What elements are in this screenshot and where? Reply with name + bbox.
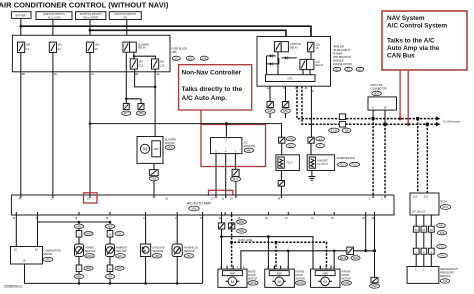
wire battery down [20,18,22,35]
svg-text:E59: E59 [283,110,288,113]
blower relay [123,42,149,52]
svg-text:ON: ON [123,16,127,19]
svg-text:E45: E45 [268,110,273,113]
svg-text:To CAN system: To CAN system [443,121,460,124]
ground [308,177,315,181]
in-vehicle sensor TH3 [172,244,182,257]
A/C relay [300,59,324,69]
connector row 1 2 3 [413,244,447,257]
red highlight A/C control [201,125,266,167]
svg-text:RELAY: RELAY [138,47,146,50]
connector E59 inline [281,102,291,114]
ignition switch ACC [36,12,72,20]
svg-text:F102: F102 [352,164,358,167]
svg-text:M56: M56 [192,208,197,211]
node CAN junction DLC L [383,123,386,126]
svg-text:Non-Nav Controller: Non-Nav Controller [182,70,242,77]
red pointer wire 1 [399,70,401,118]
node data line 2 [275,241,278,244]
diode D1 [270,54,273,57]
connector F3 inline [308,137,325,148]
dashed drop box2 [275,242,277,269]
node ambient feed [109,221,112,224]
wire to magnet clutch [285,113,287,118]
wire relay to lower fuses [134,52,156,59]
svg-text:M96: M96 [239,221,244,224]
wire ignition bus to IPDM [90,30,286,41]
svg-text:M4: M4 [108,275,112,278]
connector stub M55 [136,104,145,116]
connector E1 [333,67,341,71]
connector M92 [74,224,83,228]
svg-text:15A: 15A [138,60,143,63]
svg-text:M57: M57 [187,255,192,258]
svg-text:MOTOR: MOTOR [342,278,351,281]
svg-text:Talks to the A/C: Talks to the A/C [387,38,435,45]
svg-text:METER: METER [43,253,52,256]
connector stub M77 [122,104,131,116]
ignition relay [274,42,301,52]
node CAN junction ECM L [426,123,429,126]
wire feed down [225,124,227,138]
node gnd sunload [144,282,147,285]
svg-text:10A: 10A [57,44,62,47]
node ignition bus [89,29,92,32]
svg-text:M53: M53 [46,259,51,262]
svg-text:M56: M56 [151,178,156,181]
svg-text:C13: C13 [138,65,143,68]
wire to amp strip [280,186,282,195]
pin box 2 [76,231,82,238]
wire motor feed line [222,237,314,269]
svg-text:F45: F45 [440,255,445,258]
CPU U1 [266,75,316,82]
svg-text:Auto Amp via the: Auto Amp via the [387,45,440,52]
magnet clutch MC1 [307,155,334,171]
svg-text:2008/09/12: 2008/09/12 [4,285,22,289]
LAN ground line [241,251,375,269]
combination meter [11,247,62,265]
svg-text:F101: F101 [443,206,449,209]
svg-text:M151: M151 [343,282,350,285]
wire col ON/START 2A to strip [89,53,91,196]
connector M2 [186,56,194,60]
svg-text:SENSOR: SENSOR [153,250,164,253]
node gnd box3 [333,250,336,253]
svg-text:COMPRESSOR: COMPRESSOR [337,157,355,160]
wire gnd drop box3 [333,251,335,269]
connector E45 inline [265,102,275,114]
svg-text:M67: M67 [247,149,252,152]
red pointer wire [200,110,202,125]
wire strip pin39 [365,215,367,251]
svg-text:F23: F23 [439,246,444,249]
node pin39 gnd [364,249,367,252]
svg-text:6B: 6B [22,73,25,76]
svg-text:CLUTCH: CLUTCH [318,163,328,166]
connector F103 [338,162,348,166]
svg-text:M92: M92 [77,225,82,228]
red highlight pin 22 [84,193,98,203]
diode D3 [285,56,288,59]
wire to clutch top [310,86,312,155]
arrow CAN H [436,116,441,120]
svg-text:M150: M150 [297,282,304,285]
svg-text:M8: M8 [439,225,443,228]
connector M1 [172,56,180,60]
svg-text:CPU: CPU [288,78,293,81]
pin box 1 [76,265,82,272]
A/C auto amp connector strip [11,195,394,215]
svg-text:CONTROL: CONTROL [244,145,257,148]
svg-text:Talks directly to the: Talks directly to the [182,86,243,93]
wire strip to mode motor feed [221,215,223,269]
connector 5 inline on gnd [338,247,360,260]
svg-text:M4: M4 [108,225,112,228]
svg-text:ON or START: ON or START [83,16,99,19]
svg-text:M152: M152 [250,282,257,285]
svg-text:M77: M77 [124,112,129,115]
node battery bus [19,25,22,28]
svg-text:M55: M55 [139,112,144,115]
connector row 65 64 66 [413,223,446,235]
svg-text:M: M [143,147,147,152]
svg-text:M: M [231,279,234,284]
wire ON/START down [89,20,91,36]
svg-text:ENGINE ROOM): ENGINE ROOM) [333,63,352,66]
svg-text:2A: 2A [91,73,94,76]
svg-text:SENSOR: SENSOR [440,275,451,278]
arrow CAN L [436,122,441,126]
connector M56 oval [189,206,199,211]
sensor ground bus [25,282,203,284]
wire meter to ground bus [24,264,26,283]
wire gnd drop box2 [287,251,289,269]
connector E7 [356,67,364,71]
svg-text:SENSOR: SENSOR [85,250,96,253]
svg-text:E79: E79 [118,255,123,258]
fuse F4 15A [130,59,143,69]
svg-text:M24: M24 [374,92,379,95]
annotation NAV System [382,11,467,70]
connector box pair on CAN drop [339,114,345,127]
svg-text:M70: M70 [288,138,293,141]
wire intake drop [78,222,80,283]
annotation Non-Nav Controller [179,65,252,110]
CAN L to ECM [426,124,428,193]
node relay split [133,55,135,57]
wire col ACC 5A to strip [52,53,54,196]
wire strip pin29 to M117 [374,215,376,277]
svg-text:10A: 10A [26,44,31,47]
node gnd in-vehicle [176,282,179,285]
wire connector to amp strip [153,181,155,195]
wire ACC down [52,20,54,36]
svg-text:M92: M92 [77,275,82,278]
wire strip to ground bus [202,215,204,283]
wire IPDM pin12 down [269,86,271,101]
IPDM E/R outline [257,37,331,87]
svg-text:SENSOR: SENSOR [184,250,195,253]
connector F102 [350,162,360,166]
wire pin5 to amp [215,154,217,195]
fuse F3 10A [86,42,99,52]
wire 15A fuse jog [135,69,156,87]
CAN H to ECM [417,119,419,193]
connector F44 [440,279,450,283]
svg-text:E38: E38 [117,267,122,270]
data line dashed [232,215,327,269]
svg-text:RELAY: RELAY [290,47,298,50]
mode door motor M1 [218,269,258,287]
svg-text:M98: M98 [86,267,91,270]
connector F10 inline [279,137,296,148]
node CAN junction DLC H [372,117,375,120]
wire clutch to ground [311,171,313,177]
node feed box2 [267,235,270,238]
wire ECV to amp [280,171,282,181]
red pointer wire 2 [407,70,409,124]
svg-text:DATA LINE: DATA LINE [238,238,252,242]
svg-text:10A: 10A [95,44,100,47]
refrigerant pressure sensor PS1 [407,267,439,284]
connector M71 inline [231,169,241,181]
fuse F2 10A [49,42,62,52]
node gnd box2 [287,250,290,253]
svg-text:M95: M95 [239,230,244,233]
svg-text:C14: C14 [160,65,165,68]
wire pin4 to amp [225,154,227,195]
wire to ECV [269,113,271,118]
red node on CAN L [406,122,410,126]
wire 10A fuse to blower [154,69,156,136]
wire pin3 to connector [234,154,236,170]
svg-text:F103: F103 [340,164,346,167]
CAN H dashed bus [297,86,436,118]
wire blower to connector [153,163,155,169]
connector M3 [200,56,208,60]
svg-text:RELAY: RELAY [316,64,324,67]
svg-text:M: M [278,279,281,284]
svg-text:BATTERY: BATTERY [16,14,28,17]
svg-text:F44: F44 [443,280,448,283]
node CAN junction ECM H [416,117,419,120]
node branch to A/C control feed [89,122,92,125]
wire to ECV top [281,143,283,155]
svg-text:M403: M403 [85,233,92,236]
wire DLC pin 6 [372,110,374,119]
wire splice branches [126,99,141,104]
svg-text:MOTOR: MOTOR [165,142,174,145]
svg-text:M66: M66 [353,257,358,260]
svg-text:M48: M48 [155,255,160,258]
svg-text:MOTOR: MOTOR [248,278,257,281]
svg-text:A/C Auto Amp.: A/C Auto Amp. [182,95,228,102]
wire strip to meter pin1 [15,215,17,247]
node gnd ambient [109,282,112,285]
connector M56 inline [149,170,159,181]
svg-text:AMP: AMP [276,273,282,276]
svg-text:AMP: AMP [153,148,159,151]
node data line 1 [230,241,233,244]
battery B1 [11,12,31,19]
in-vehicle sensor chain [172,215,198,283]
svg-text:MOTOR: MOTOR [296,278,305,281]
red highlight amp pins [209,190,233,202]
ECM box [410,193,439,215]
dashed drop box1 [231,242,233,269]
wire feed drop box2 [267,237,269,269]
fuse F5 10A [152,59,165,69]
ambient sensor chain [105,222,127,283]
wire diode links [267,56,297,75]
wire strip to meter pin2 and sensor bus [38,215,111,247]
svg-text:CONNECTOR: CONNECTOR [371,88,387,91]
ECV solenoid [276,155,300,171]
wire connector to amp [235,181,237,195]
svg-text:SENSOR: SENSOR [116,250,127,253]
intake door motor M2 [265,269,306,287]
svg-text:AMP: AMP [230,273,236,276]
svg-text:10A: 10A [160,60,165,63]
svg-text:M8: M8 [345,129,349,132]
connector M67 [244,148,254,152]
svg-text:ACC or ON: ACC or ON [48,16,61,19]
red node on CAN H [398,117,402,121]
svg-text:M117: M117 [371,285,378,288]
node pin29 gnd [373,249,376,252]
wire pin stubs into strip [16,195,385,215]
connector F101 [440,205,450,210]
wire motor pin stubs [227,266,331,270]
fuse 10A IPDM [308,42,321,52]
svg-text:M71: M71 [233,178,238,181]
svg-text:114: 114 [413,196,418,199]
connector M24 [372,91,382,95]
wire ON down [126,20,128,43]
svg-text:5A: 5A [54,73,57,76]
blower motor BM1 [137,137,176,164]
connector M117 inline [370,277,380,288]
svg-text:M142: M142 [340,257,347,260]
svg-text:F10: F10 [289,145,294,148]
ambient sensor TH2 [106,244,115,257]
node blower feed join [154,86,157,89]
ignition switch ON or START [76,12,106,20]
svg-text:M: M [323,279,326,284]
connector E2 [345,67,353,71]
svg-text:F24: F24 [440,232,445,235]
svg-text:(J/B): (J/B) [172,51,177,54]
svg-text:ECV: ECV [288,162,293,165]
wires ECM down [415,215,417,267]
svg-text:107 106 112: 107 106 112 [412,211,426,214]
wire DLC pin 14 [384,110,386,124]
sunload sensor chain [141,215,165,283]
intake sensor TH1 [75,244,84,257]
svg-text:M403: M403 [86,255,93,258]
node gnd intake [78,282,81,285]
wire relay left output down [125,52,127,99]
svg-text:M1: M1 [175,57,179,60]
CAN H to amp strip [372,119,374,195]
svg-text:E108: E108 [331,129,337,132]
svg-text:M59: M59 [168,146,173,149]
svg-text:A/C Control System: A/C Control System [387,23,447,30]
svg-text:ECM: ECM [441,200,448,204]
A/C control unit [211,138,242,154]
svg-text:4B: 4B [135,73,138,76]
svg-text:AMP: AMP [322,273,328,276]
svg-text:M3: M3 [202,57,206,60]
wire fuse to A/C relay [303,52,311,75]
connector M8 [342,128,351,133]
svg-text:E36: E36 [117,233,122,236]
fuse block J/B outline [12,35,170,72]
svg-text:A/C AUTO AMP: A/C AUTO AMP [187,201,212,205]
wire ignition relay to CPU [277,52,279,75]
wire battery bus to IPDM [21,26,311,42]
node feed line [220,235,223,238]
diode D2 [270,62,273,65]
wire feed to A/C control and ECV [90,124,282,138]
svg-text:M2: M2 [189,57,193,60]
ignition switch ON [109,12,141,20]
svg-text:NAV System: NAV System [387,15,425,22]
wire col battery 6B to strip [20,53,22,196]
connector E108 [329,128,339,133]
fuse F1 10A [18,42,31,52]
connector F45 inline [278,181,284,187]
connector pair M96 M95 [218,220,246,234]
intake sensor chain [74,222,95,283]
CAN L to amp strip [384,124,386,195]
sunload sensor PD1 [141,244,151,257]
CAN L dashed bus [302,86,436,124]
svg-text:CAN Bus: CAN Bus [387,53,415,60]
wire IPDM pin39 down [285,86,287,101]
svg-text:112: 112 [424,196,429,199]
node intake feed [78,221,81,224]
node splice [125,98,128,101]
data link connector box [368,97,397,110]
svg-text:AIR CONDITIONER CONTROL (WITHO: AIR CONDITIONER CONTROL (WITHOUT NAVI) [0,1,169,10]
node A/C control feed [225,122,228,125]
svg-text:3A: 3A [156,73,159,76]
air mix door motor M3 [311,269,352,287]
